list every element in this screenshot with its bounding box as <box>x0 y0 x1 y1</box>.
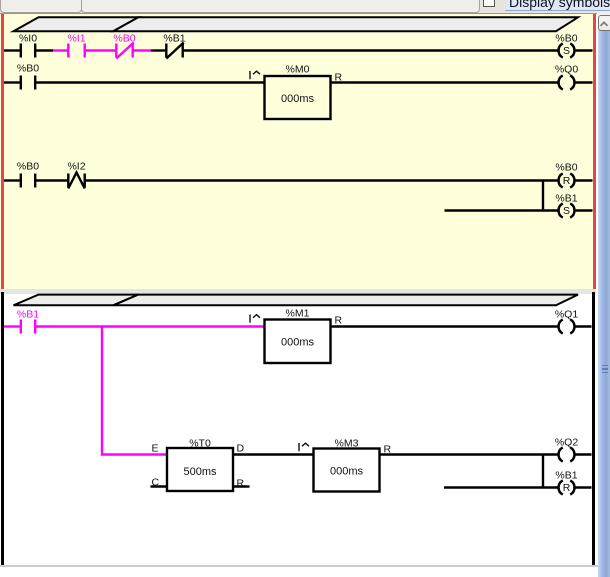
svg-text:%B0: %B0 <box>113 33 135 45</box>
wire timer D to block <box>233 453 314 455</box>
svg-text:%B1: %B1 <box>17 309 39 321</box>
wire rung1 row1 left <box>4 49 20 51</box>
coil %B0 (S) <box>559 43 575 57</box>
scrollbar up button <box>598 15 610 31</box>
svg-text:%B0: %B0 <box>555 162 577 174</box>
contact %I2 (rising edge) <box>68 173 84 189</box>
svg-text:R: R <box>335 315 343 327</box>
svg-text:%Q2: %Q2 <box>555 437 579 449</box>
svg-text:%T0: %T0 <box>189 438 211 450</box>
wire rung1 row2 right <box>575 81 592 83</box>
rung 1 right red border <box>593 14 597 289</box>
wire rung2 row1 left magenta <box>4 325 20 327</box>
rung 2 right black border <box>592 292 596 565</box>
toolbar strip <box>0 0 610 14</box>
wire rung1 row2 to coil <box>331 81 558 83</box>
wire rung1 row2 left <box>4 81 20 83</box>
svg-text:%B1: %B1 <box>163 33 185 45</box>
label I^ for %M1 <box>250 315 260 323</box>
block %M0 box <box>265 76 331 119</box>
svg-text:R: R <box>237 478 245 490</box>
bottom separator line <box>0 565 610 567</box>
wire R stub <box>233 485 250 487</box>
svg-text:D: D <box>237 443 245 455</box>
wire rung2 row1 right <box>575 325 591 327</box>
rung 2 background (white) <box>0 294 596 565</box>
wire rung2 row1 to block magenta <box>35 325 264 327</box>
wire rung1 row1 seg2 magenta <box>53 49 68 51</box>
svg-text:S: S <box>563 205 570 217</box>
svg-text:000ms: 000ms <box>330 466 364 478</box>
contact %B0 row3 (NO) <box>21 174 35 188</box>
svg-text:000ms: 000ms <box>281 337 315 349</box>
scrollbar grip <box>602 365 608 367</box>
contact %B1 (NC) <box>166 43 183 59</box>
rung 1 left red border <box>1 14 5 289</box>
svg-text:500ms: 500ms <box>183 466 217 478</box>
coil %B1 (S) <box>559 203 575 217</box>
svg-text:%B1: %B1 <box>555 470 577 482</box>
branch wire magenta vertical <box>102 327 167 455</box>
svg-text:%I0: %I0 <box>19 33 37 45</box>
rung 1 header parallelogram large <box>113 17 578 31</box>
svg-text:%Q1: %Q1 <box>555 309 579 321</box>
wire rung1 row1 seg4 black <box>151 49 166 51</box>
block %M3 box <box>314 449 380 492</box>
label I^ for %M0 <box>250 71 260 79</box>
wire rung1 row1 seg2 black <box>35 49 53 51</box>
junction vertical rung1 <box>542 181 544 211</box>
contact %B1 (NO, magenta) <box>21 320 35 334</box>
coil %Q0 <box>559 75 575 89</box>
label Display symbols <box>505 0 610 11</box>
toolbar tab 2 <box>81 0 480 13</box>
wire rung1 row3 right <box>575 179 592 181</box>
svg-text:%M0: %M0 <box>286 64 310 76</box>
scrollbar up chevron <box>598 19 610 29</box>
svg-text:%B0: %B0 <box>17 63 39 75</box>
wire rung1 row1 seg4 magenta <box>133 49 151 51</box>
wire rung1 row3 seg2 <box>35 179 68 181</box>
contact %B0 (NC, magenta) <box>116 43 133 59</box>
svg-text:%I1: %I1 <box>67 33 85 45</box>
rung 1 background (selected, yellow) <box>0 14 596 290</box>
toolbar tab 1 <box>0 0 82 13</box>
label I^ for %M3 <box>299 443 309 451</box>
wire rung1 row2 to block <box>35 81 264 83</box>
svg-text:%B1: %B1 <box>555 193 577 205</box>
block %M1 box <box>265 320 331 364</box>
rung 2 header parallelogram small <box>14 295 139 306</box>
wire rung1 branch <box>445 209 558 211</box>
contact %I1 (NO, magenta) <box>68 44 84 58</box>
wire rung2 row2 to coil <box>380 453 558 455</box>
rung 2 header parallelogram large <box>113 295 578 306</box>
checkbox Display symbols <box>483 0 495 7</box>
wire rung2 row2 right <box>575 453 591 455</box>
wire rung1 branch right <box>575 209 592 211</box>
svg-text:S: S <box>563 45 570 57</box>
wire rung1 row3 to coil <box>85 179 558 181</box>
timer %T0 box <box>167 448 233 491</box>
vertical scrollbar track <box>597 11 610 15</box>
rung separator <box>0 289 596 294</box>
contact %B0 row2 (NO) <box>21 76 35 90</box>
wire rung1 row1 seg3 magenta <box>85 49 117 51</box>
wire rung2 branch <box>444 486 558 488</box>
svg-text:%Q0: %Q0 <box>555 64 579 76</box>
contact %I0 (NO) <box>21 44 35 58</box>
svg-text:R: R <box>563 482 571 494</box>
svg-text:R: R <box>563 175 571 187</box>
svg-text:%B0: %B0 <box>17 161 39 173</box>
wire C stub <box>151 485 168 487</box>
rung 2 left black border <box>1 292 5 565</box>
wire rung1 row1 to coil <box>183 49 558 51</box>
coil %Q1 <box>559 319 575 333</box>
coil %Q2 <box>559 447 575 461</box>
svg-text:%I2: %I2 <box>67 161 85 173</box>
wire rung2 row1 to coil <box>331 325 558 327</box>
svg-text:%B0: %B0 <box>555 33 577 45</box>
svg-text:%M3: %M3 <box>335 438 359 450</box>
wire rung2 branch right <box>575 486 591 488</box>
wire rung1 row1 right <box>575 49 592 51</box>
wire rung1 row3 left <box>4 179 20 181</box>
svg-text:%M1: %M1 <box>286 308 310 320</box>
junction vertical rung2 <box>542 455 544 488</box>
svg-text:E: E <box>152 443 159 455</box>
coil %B1 (R) <box>559 480 575 494</box>
rung 1 header parallelogram small <box>14 17 139 31</box>
svg-text:000ms: 000ms <box>281 93 315 105</box>
coil %B0 (R) <box>559 173 575 187</box>
